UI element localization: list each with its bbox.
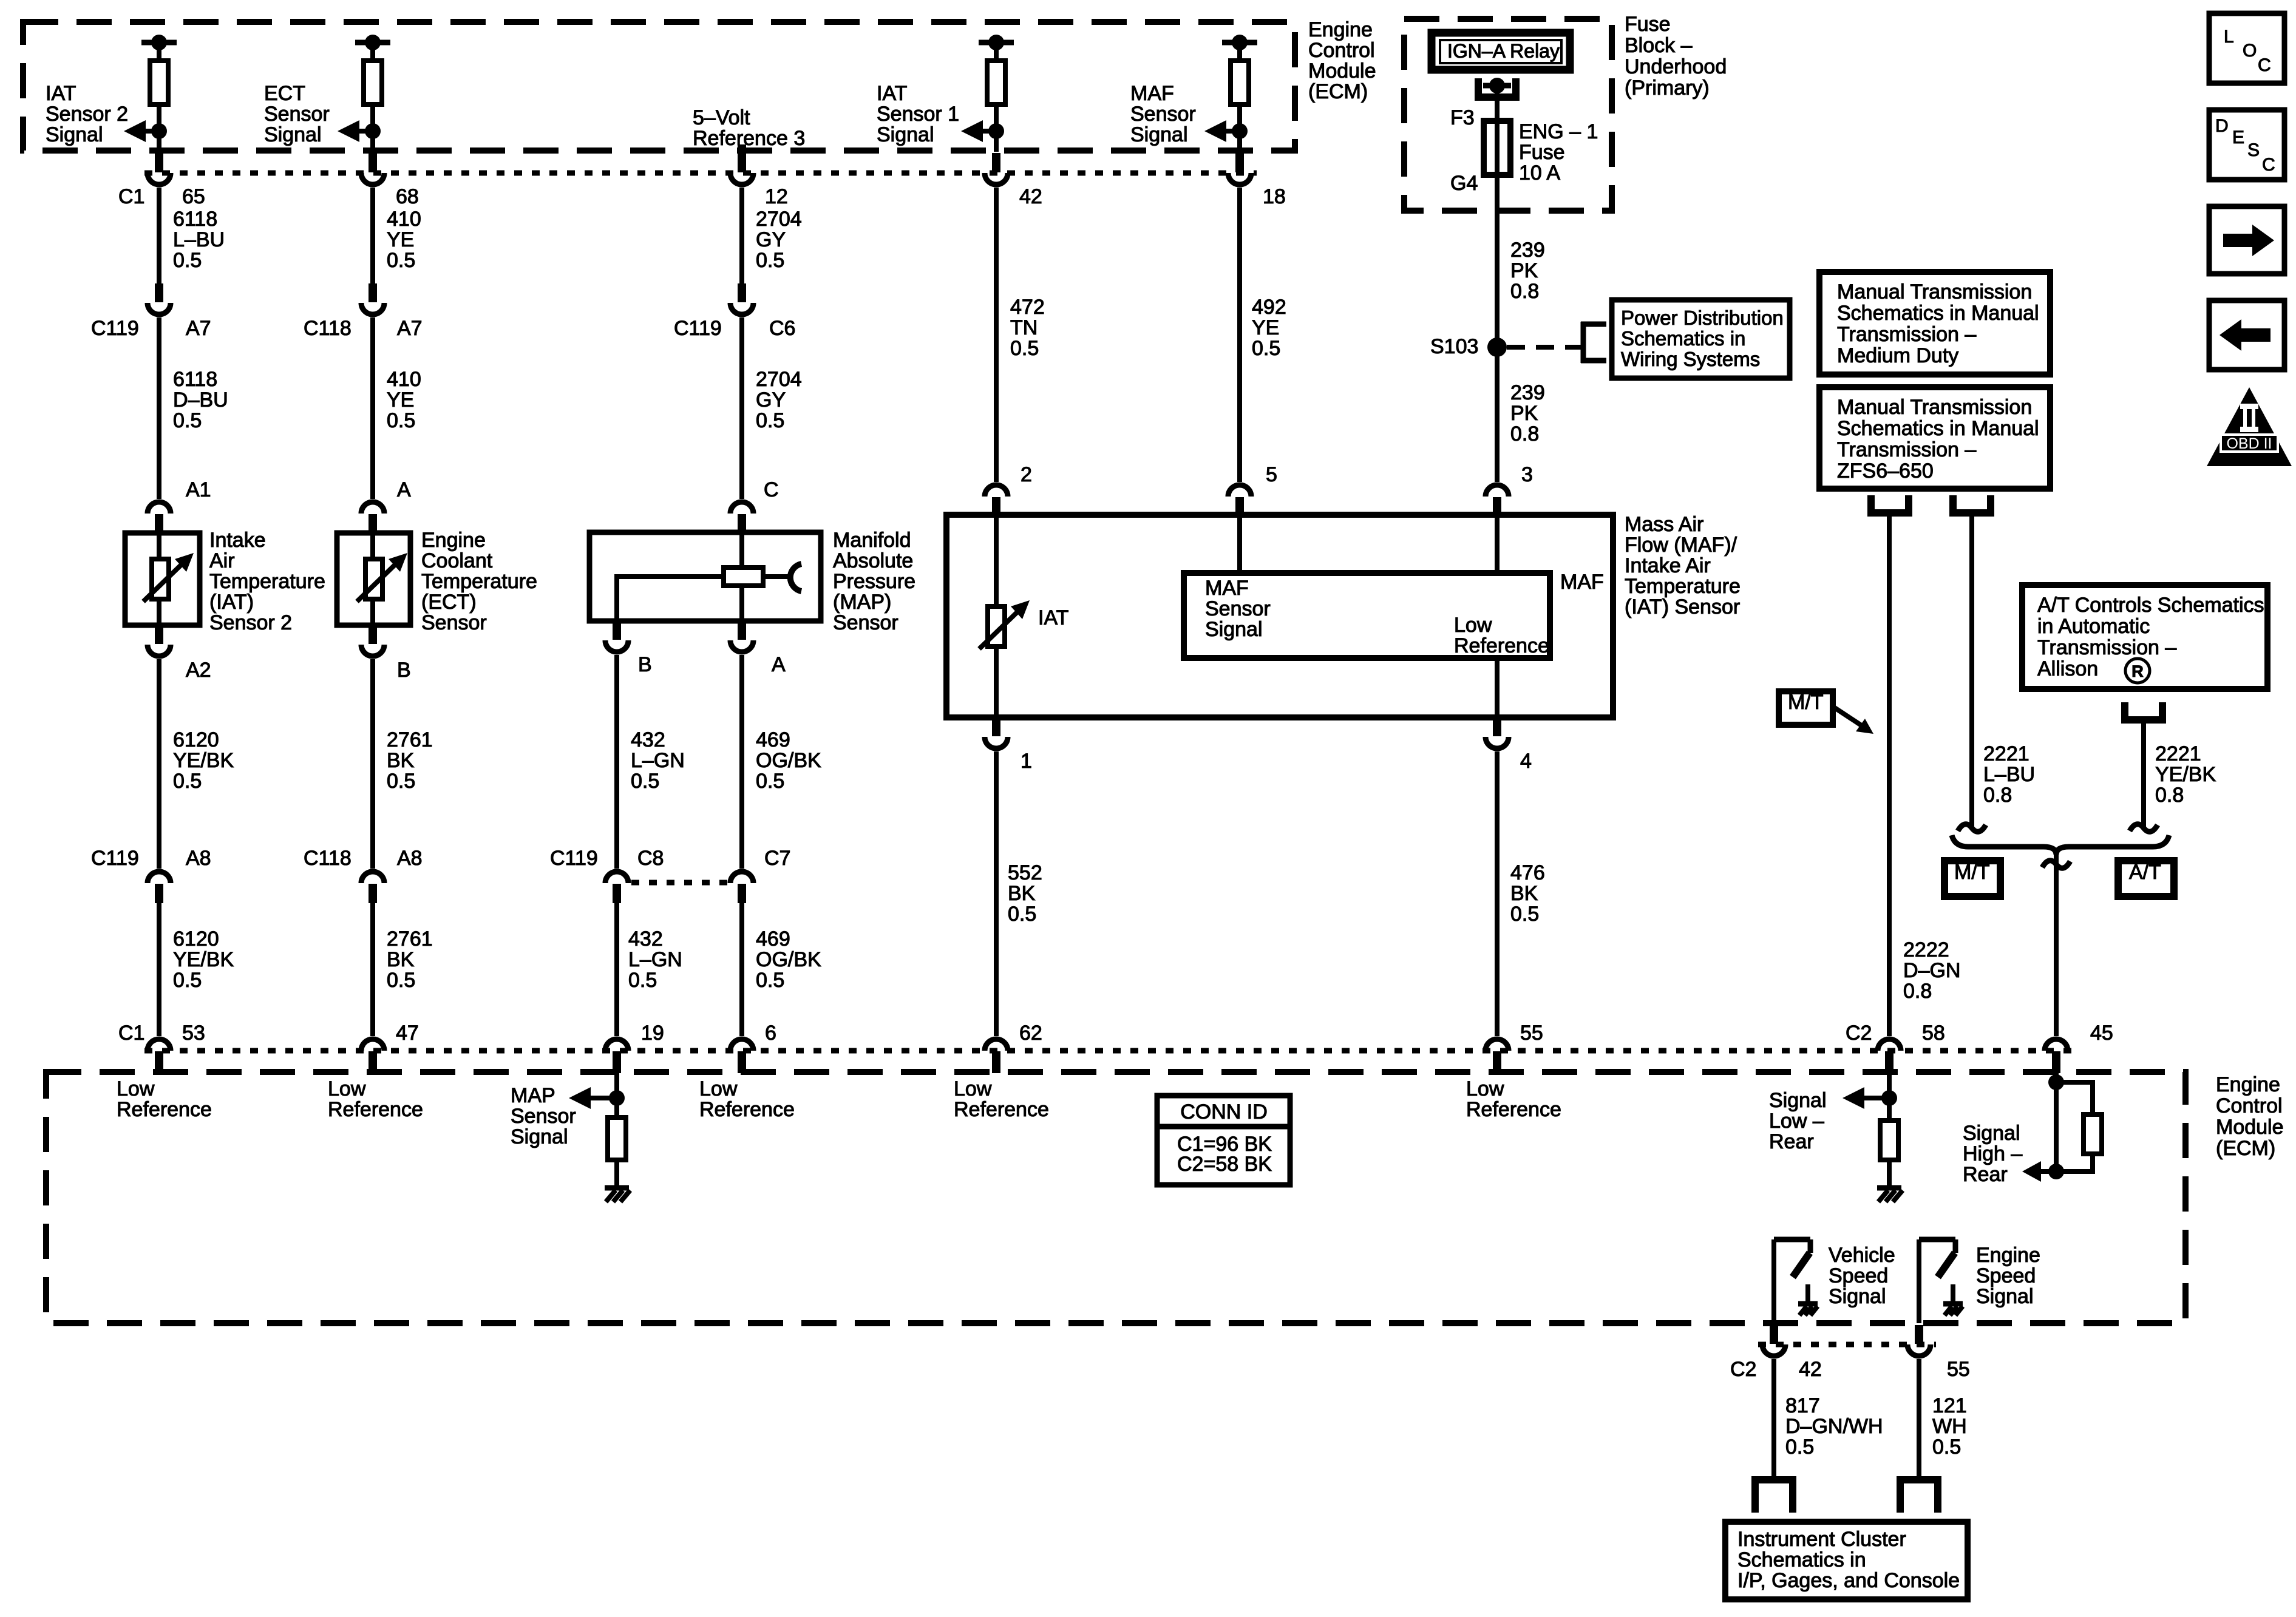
svg-text:Intake: Intake [209,529,266,552]
svg-text:0.5: 0.5 [1252,337,1280,360]
label Engine Control Module (ECM) top [1308,18,1376,103]
connector C2 pin 42 [1762,1325,1785,1356]
label 469 OG/BK 0.5 (1) [756,728,821,793]
label 5-Volt Reference 3 [693,106,805,150]
svg-text:in Automatic: in Automatic [2037,615,2150,638]
label 2221 L-BU 0.8 [1983,742,2035,807]
lead-in bracket (power distribution) [1581,322,1606,363]
label C1 [118,185,144,208]
bracket under A/T box [2125,702,2162,720]
MAF/IAT sensor box [946,515,1613,717]
svg-text:0.5: 0.5 [1010,337,1039,360]
svg-text:TN: TN [1010,316,1038,339]
svg-text:O: O [2243,41,2257,61]
svg-text:PK: PK [1510,259,1538,282]
svg-text:Manual Transmission: Manual Transmission [1837,396,2032,419]
svg-text:0.5: 0.5 [756,249,784,272]
svg-text:Medium Duty: Medium Duty [1837,344,1958,367]
svg-text:0.5: 0.5 [1932,1436,1961,1459]
bracket under ZFS box (right) [1953,495,1991,513]
label 6118 D-BU 0.5 [173,368,228,432]
svg-text:Fuse: Fuse [1625,13,1671,36]
label MAF Sensor Signal (inner) [1205,577,1271,641]
label 2704 GY 0.5 (2) [756,368,802,432]
Engine Speed Signal ground [1943,1284,1963,1315]
wire 432 L-GN (seg2) [614,903,619,1036]
wire 817 D-GN/WH [1771,1359,1776,1480]
svg-text:C119: C119 [91,317,139,340]
ECM internal resistor (signal low) [1880,1120,1898,1188]
svg-text:Engine: Engine [421,529,486,552]
label Low Reference (pin at x=262) [117,1077,212,1121]
svg-text:45: 45 [2090,1022,2113,1045]
label B (ECT) [397,659,411,682]
svg-text:0.5: 0.5 [756,770,784,793]
svg-text:D–GN/WH: D–GN/WH [1785,1415,1883,1438]
M/T flag box [1779,691,1833,725]
svg-text:(ECT): (ECT) [421,591,477,614]
connector C119 pin A7 [148,283,171,314]
label pin 2 [1021,463,1032,486]
svg-text:476: 476 [1510,861,1545,884]
svg-text:Engine: Engine [1976,1244,2040,1267]
svg-text:6118: 6118 [173,208,217,231]
Manual Transmission ZFS6-650 box [1819,387,2050,489]
labels C119 A8 [91,847,211,870]
svg-text:47: 47 [396,1022,419,1045]
connector pin A1 [148,502,171,534]
svg-text:2: 2 [1021,463,1032,486]
svg-text:Module: Module [2216,1116,2284,1139]
svg-text:0.5: 0.5 [173,249,202,272]
connector line C2 bottom (dotted) [1758,1342,1936,1347]
svg-text:Sensor 1: Sensor 1 [877,103,959,126]
svg-text:Reference: Reference [1454,634,1549,657]
ECM internal resistor (MAP signal) [608,1117,626,1188]
relay terminal bracket [1478,78,1516,97]
svg-text:IAT: IAT [877,82,907,105]
svg-text:OBD II: OBD II [2226,435,2272,452]
svg-text:12: 12 [765,185,788,208]
svg-text:55: 55 [1520,1022,1543,1045]
svg-text:Signal: Signal [1205,618,1263,641]
label bottom pin 53 [182,1022,205,1045]
Vehicle Speed Signal ground [1798,1284,1818,1315]
connector C1 pin 65 [148,153,171,185]
svg-text:L–BU: L–BU [1983,763,2035,786]
label bottom pin 55 [1520,1022,1543,1045]
svg-text:Module: Module [1308,59,1376,83]
label MAP Sensor Signal (bottom) [511,1084,576,1148]
svg-text:Flow (MAF)/: Flow (MAF)/ [1625,534,1737,557]
connector jumper C8-C7 (dotted) [631,880,729,886]
svg-text:High –: High – [1963,1142,2022,1165]
connector C118 pin A7 [361,283,384,314]
label bottom pin 6 [765,1022,776,1045]
svg-text:0.5: 0.5 [173,770,202,793]
svg-text:C118: C118 [304,317,352,340]
Power Distribution box [1612,300,1790,378]
svg-text:L–BU: L–BU [173,228,225,251]
svg-text:E: E [2232,127,2244,147]
svg-text:Transmission –: Transmission – [1837,438,1976,461]
label IAT (in box) [1038,606,1068,629]
svg-text:6118: 6118 [173,368,217,391]
wire 410 YE (seg2) [370,317,375,499]
svg-text:0.5: 0.5 [387,409,415,432]
labels C118 A7 [304,317,423,340]
label 239 PK 0.8 (2) [1510,381,1545,446]
A/T option box [2118,861,2174,897]
M/T flag arrow [1835,708,1873,734]
labels C119 C8 [550,847,664,870]
svg-text:2761: 2761 [387,728,433,751]
svg-text:G4: G4 [1450,172,1478,195]
connector bottom pin 55 [1486,1039,1509,1073]
svg-text:Signal: Signal [264,123,322,146]
svg-text:2761: 2761 [387,927,433,951]
ECM trace arrow IAT Sensor 2 Signal [124,120,167,142]
svg-text:(ECM): (ECM) [1308,80,1368,103]
wire 2222 D-GN (upper) [1887,513,1892,1036]
svg-text:B: B [638,653,652,676]
ECM internal pull-up resistor (ECT Sensor Signal) [355,35,390,152]
label Signal Low - Rear [1769,1089,1827,1153]
svg-text:Underhood: Underhood [1625,55,1727,78]
label 410 YE 0.5 (1) [387,208,421,272]
dashed link S103 to Power Distribution [1507,345,1583,350]
wire-break squiggle (L-BU) [1958,824,1986,832]
svg-text:410: 410 [387,208,421,231]
svg-text:Vehicle: Vehicle [1829,1244,1895,1267]
label pin 4 [1520,750,1532,773]
label 2221 YE/BK 0.8 [2155,742,2216,807]
svg-text:Signal: Signal [1130,123,1188,146]
connector C118 pin A8 [361,872,384,903]
label pin 68 [396,185,419,208]
svg-text:432: 432 [628,927,663,951]
svg-text:A: A [397,478,411,501]
ECT sensor box [337,533,410,625]
svg-text:(IAT) Sensor: (IAT) Sensor [1625,595,1740,619]
connector pin A2 [148,625,171,656]
wire 239 PK (seg1) [1495,175,1500,347]
svg-text:Transmission –: Transmission – [1837,323,1976,346]
connector pin A (MAP) [730,621,753,652]
IAT sensor 2 box [125,533,200,625]
wire pin3 to MAF electronics [1495,515,1500,573]
svg-text:(Primary): (Primary) [1625,76,1710,100]
svg-text:Wiring Systems: Wiring Systems [1621,348,1760,370]
svg-text:Sensor 2: Sensor 2 [46,103,128,126]
connector line C1 (dotted) [144,171,1257,176]
svg-text:Fuse: Fuse [1519,141,1565,164]
svg-text:Schematics in Manual: Schematics in Manual [1837,417,2039,440]
svg-text:Low: Low [1466,1077,1504,1100]
connector line bottom row (dotted) [144,1048,2071,1054]
svg-text:0.5: 0.5 [756,409,784,432]
svg-text:6120: 6120 [173,728,219,751]
svg-text:469: 469 [756,927,790,951]
svg-text:IAT: IAT [1038,606,1068,629]
label ECT Sensor Signal [264,82,330,146]
wire 6118 D-BU (seg2) [157,317,161,499]
svg-text:Control: Control [1308,39,1375,62]
wire 2761 BK (seg1) [370,659,375,869]
svg-text:Low: Low [117,1077,155,1100]
Engine Speed Signal switch [1919,1239,1955,1323]
label 817 D-GN/WH 0.5 [1785,1394,1883,1459]
connector bottom pin 47 [361,1039,384,1073]
svg-text:Reference: Reference [328,1098,423,1121]
label IAT Sensor 1 Signal [877,82,959,146]
svg-text:GY: GY [756,228,786,251]
svg-text:Control: Control [2216,1094,2283,1117]
svg-text:YE: YE [387,388,414,412]
svg-text:Signal: Signal [1976,1285,2034,1308]
svg-text:0.5: 0.5 [173,409,202,432]
label 6120 YE/BK 0.5 (2) [173,927,234,992]
svg-text:469: 469 [756,728,790,751]
svg-text:A8: A8 [186,847,211,870]
svg-text:Schematics in: Schematics in [1737,1548,1866,1571]
svg-text:IAT: IAT [46,82,76,105]
svg-text:(ECM): (ECM) [2216,1137,2275,1160]
ECM internal pull-up resistor (IAT Sensor 1 Signal) [979,35,1014,152]
label Engine Coolant Temperature (ECT) Sensor [421,529,537,634]
svg-text:ENG – 1: ENG – 1 [1519,120,1598,143]
svg-text:Rear: Rear [1769,1130,1814,1153]
svg-text:0.5: 0.5 [1510,903,1539,926]
fuse ENG-1 [1484,118,1510,177]
svg-text:18: 18 [1263,185,1286,208]
signal high branch [2040,1074,2102,1179]
connector pin 5 [1228,485,1251,516]
svg-text:C: C [764,478,779,501]
connector pin B (ECT) [361,625,384,656]
IAT thermistor in MAF box [979,515,1030,717]
svg-text:10 A: 10 A [1519,161,1560,185]
svg-text:S103: S103 [1430,335,1478,358]
svg-text:Low: Low [954,1077,992,1100]
connector C1 pin 42 [985,153,1008,185]
wire 2704 GY (seg1) [739,188,744,283]
ground (MAP signal) [605,1188,630,1202]
wire 476 BK [1495,751,1500,1036]
svg-text:42: 42 [1799,1358,1822,1381]
svg-text:D–BU: D–BU [173,388,228,412]
label bottom pin 19 [641,1022,664,1045]
svg-text:M/T: M/T [1954,861,1990,884]
DESC icon box [2209,110,2284,180]
connector C2 pin 55 [1907,1325,1931,1356]
svg-text:Low: Low [1454,614,1492,637]
svg-text:A/T Controls Schematics: A/T Controls Schematics [2037,594,2264,617]
svg-text:0.8: 0.8 [1510,280,1539,303]
svg-text:A8: A8 [397,847,423,870]
svg-text:0.5: 0.5 [173,969,202,992]
Vehicle Speed Signal switch [1774,1239,1810,1323]
label G4 [1450,172,1478,195]
svg-text:MAF: MAF [1560,571,1604,594]
svg-text:Manifold: Manifold [833,529,911,552]
label Manifold Absolute Pressure (MAP) Sensor [833,529,915,634]
svg-text:0.8: 0.8 [1983,784,2012,807]
svg-text:Sensor 2: Sensor 2 [209,611,292,634]
svg-text:Temperature: Temperature [421,570,537,593]
svg-text:D: D [2215,116,2229,136]
svg-text:2222: 2222 [1903,938,1949,961]
MAP sensor box [589,532,821,621]
svg-text:C2: C2 [1730,1358,1756,1381]
label Mass Air Flow (MAF)/Intake Air Temperature (IAT) Sensor [1625,513,1741,619]
label bottom pin 62 [1019,1022,1042,1045]
svg-text:2221: 2221 [1983,742,2029,765]
connector bottom pin 53 [148,1039,171,1073]
svg-text:Schematics in Manual: Schematics in Manual [1837,302,2039,325]
svg-text:YE/BK: YE/BK [2155,763,2216,786]
svg-text:C2=58 BK: C2=58 BK [1177,1153,1272,1176]
svg-text:OG/BK: OG/BK [756,948,821,971]
svg-text:Signal: Signal [877,123,934,146]
svg-text:0.5: 0.5 [387,770,415,793]
svg-text:BK: BK [387,948,415,971]
label F3 [1450,106,1475,129]
label bottom pin 47 [396,1022,419,1045]
fuse block box (dashed) [1404,19,1612,211]
M/T option box [1944,861,2000,897]
IGN-A relay box [1432,33,1570,70]
wire 432 L-GN (seg1) [614,655,619,869]
wire 121 WH [1917,1359,1921,1480]
svg-text:5–Volt: 5–Volt [693,106,750,129]
svg-text:C8: C8 [637,847,664,870]
svg-text:Absolute: Absolute [833,549,913,572]
svg-text:0.5: 0.5 [631,770,659,793]
wire low ref inner to box bottom [1495,658,1500,717]
svg-text:Speed: Speed [1829,1264,1888,1287]
label Vehicle Speed Signal [1829,1244,1895,1308]
connector pin 2 [985,485,1008,516]
labels C118 A8 [304,847,423,870]
svg-text:Low: Low [699,1077,738,1100]
left arrow icon box [2209,300,2284,370]
label 6118 L-BU 0.5 [173,208,225,272]
wire 2761 BK (seg2) [370,903,375,1036]
label A1 [186,478,211,501]
svg-text:Low –: Low – [1769,1110,1824,1133]
bracket under ZFS box (left) [1871,495,1909,513]
label pin 1 [1021,750,1032,773]
svg-text:Coolant: Coolant [421,549,493,572]
svg-text:Instrument Cluster: Instrument Cluster [1737,1528,1906,1551]
OBD II triangle icon [2207,387,2292,466]
svg-text:Sensor: Sensor [264,103,330,126]
ECM trace arrow Signal High - Rear [2022,1161,2041,1182]
wire-break squiggle (merged) [2042,861,2070,868]
svg-text:Sensor: Sensor [1205,597,1271,620]
label Engine Speed Signal [1976,1244,2040,1308]
label C7 [764,847,790,870]
svg-text:A7: A7 [186,317,211,340]
svg-text:817: 817 [1785,1394,1820,1417]
label Low Reference (pin at x=2466) [1466,1077,1561,1121]
svg-text:MAP: MAP [511,1084,555,1107]
svg-text:Engine: Engine [2216,1073,2280,1096]
svg-text:IGN–A Relay: IGN–A Relay [1447,40,1560,62]
label pin 18 [1263,185,1286,208]
label A (ECT) [397,478,411,501]
wire merged to pin 45 [2054,853,2059,1036]
ECM internal pull-up resistor (IAT Sensor 2 Signal) [141,35,177,152]
wire 552 BK [994,751,999,1036]
connector bottom pin 6 [730,1039,753,1073]
svg-text:A: A [772,653,786,676]
svg-text:Pressure: Pressure [833,570,915,593]
wire 6120 YE/BK (seg1) [157,659,161,869]
label 2761 BK 0.5 (1) [387,728,433,793]
svg-text:ZFS6–650: ZFS6–650 [1837,459,1934,483]
wire 2221 L-BU [1969,513,1974,827]
connector C119 pin A8 [148,872,171,903]
svg-text:D–GN: D–GN [1903,959,1960,982]
Manual Transmission Medium Duty box [1819,272,2050,375]
svg-text:C119: C119 [550,847,598,870]
svg-text:A1: A1 [186,478,211,501]
ECM trace arrow ECT Sensor Signal [338,120,381,142]
connector pin 3 [1486,485,1509,516]
connector bottom pin 62 [985,1039,1008,1073]
svg-text:Rear: Rear [1963,1163,2008,1186]
svg-text:Reference: Reference [954,1098,1049,1121]
label Low Reference (inner) [1454,614,1549,657]
label pin 5 [1266,463,1277,486]
svg-text:Speed: Speed [1976,1264,2036,1287]
svg-text:2704: 2704 [756,208,802,231]
svg-text:C119: C119 [674,317,722,340]
svg-text:6120: 6120 [173,927,219,951]
label 2761 BK 0.5 (2) [387,927,433,992]
LOC icon box [2209,13,2284,83]
wire pin 45 internal [2054,1072,2059,1171]
wire 2704 GY (seg2) [739,317,744,499]
svg-text:6: 6 [765,1022,776,1045]
svg-text:0.8: 0.8 [1903,980,1932,1003]
svg-text:Temperature: Temperature [209,570,325,593]
svg-text:BK: BK [1510,882,1538,905]
label C (MAP) [764,478,779,501]
svg-text:Low: Low [328,1077,366,1100]
svg-text:0.5: 0.5 [1785,1436,1814,1459]
svg-text:Allison: Allison [2037,657,2098,680]
ECM trace arrow MAF Sensor Signal [1204,120,1248,142]
svg-text:(IAT): (IAT) [209,591,254,614]
svg-text:65: 65 [182,185,205,208]
label 432 L-GN 0.5 (1) [631,728,685,793]
wire pin 58 internal [1887,1072,1892,1120]
svg-text:(MAP): (MAP) [833,591,891,614]
wire-break squiggle (YE/BK) [2130,824,2158,832]
svg-text:68: 68 [396,185,419,208]
svg-text:Power Distribution: Power Distribution [1621,307,1784,329]
svg-text:Sensor: Sensor [421,611,487,634]
label Fuse Block - Underhood (Primary) [1625,13,1727,100]
labels C119 A7 [91,317,211,340]
svg-text:C: C [2262,155,2275,175]
label 239 PK 0.8 (1) [1510,239,1545,303]
svg-text:A/T: A/T [2129,861,2161,884]
svg-text:C: C [2258,55,2271,75]
